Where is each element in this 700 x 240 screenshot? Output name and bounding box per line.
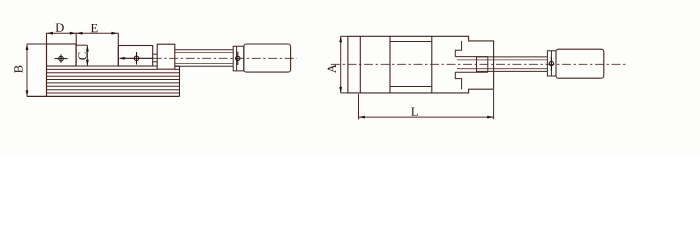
inner vertical line 1 [359,36,361,93]
jaw ledge line [76,44,88,46]
centerline (top view) [331,63,626,65]
inner vertical line 2 [389,36,391,93]
fixed jaw center mark [55,54,68,62]
dimension D-E line [47,32,118,34]
screw thin section between jaw and bracket [153,54,158,62]
label A [328,64,336,73]
collar center mark (top view) [549,57,553,71]
movable jaw block [118,46,152,67]
knob (top view) [556,49,604,78]
dimension C arrows [86,45,89,66]
label B [14,66,22,73]
dimension C line [86,45,88,66]
dimension A arrows [339,36,342,93]
A extension bottom [341,92,348,94]
vise base outline [47,66,180,96]
dimension D arrows [47,32,77,35]
label E [91,24,98,32]
label C [78,52,86,59]
dimension L line [359,116,494,118]
extension line left (body left edge) [46,33,48,97]
extension line right (movable jaw left edge) [117,33,119,66]
movable jaw center mark with leader arrow [122,52,153,65]
collar [233,46,244,71]
screw (top view) outer lines [477,57,548,72]
screw nut boss (top view) [477,57,488,73]
screw shaft thread inner lines [175,53,233,64]
leader arrow at jaw face [118,57,124,60]
screw shaft outer lines [175,50,233,66]
recess bottom line [390,86,432,88]
collar (top view) [547,51,556,76]
knob (handle cylinder) [244,44,291,72]
body outline (top view) [348,36,494,93]
dimension E arrows [76,32,118,35]
screw thread inner lines [457,60,547,69]
screw centerline [153,57,297,59]
extension line middle (fixed jaw right edge) [75,33,77,66]
base serration lines [47,69,180,93]
dimension L arrows [359,116,494,119]
dimension B line [26,44,28,96]
recess top line [390,41,432,43]
A extension top [341,35,348,37]
bracket steps (top view) [455,41,488,89]
fixed jaw block [47,44,77,66]
top extension line / jaw top edge [27,43,76,45]
label L [411,108,418,116]
collar center mark [236,52,240,65]
label D [56,23,64,31]
end bracket [157,44,175,69]
bottom extension line / base bottom edge [27,95,180,97]
dimension L extension right [493,90,495,119]
inner vertical line 3 [431,36,433,93]
dimension A line [340,36,342,93]
dimension L extension left [358,94,360,119]
dimension B arrows [26,44,29,97]
